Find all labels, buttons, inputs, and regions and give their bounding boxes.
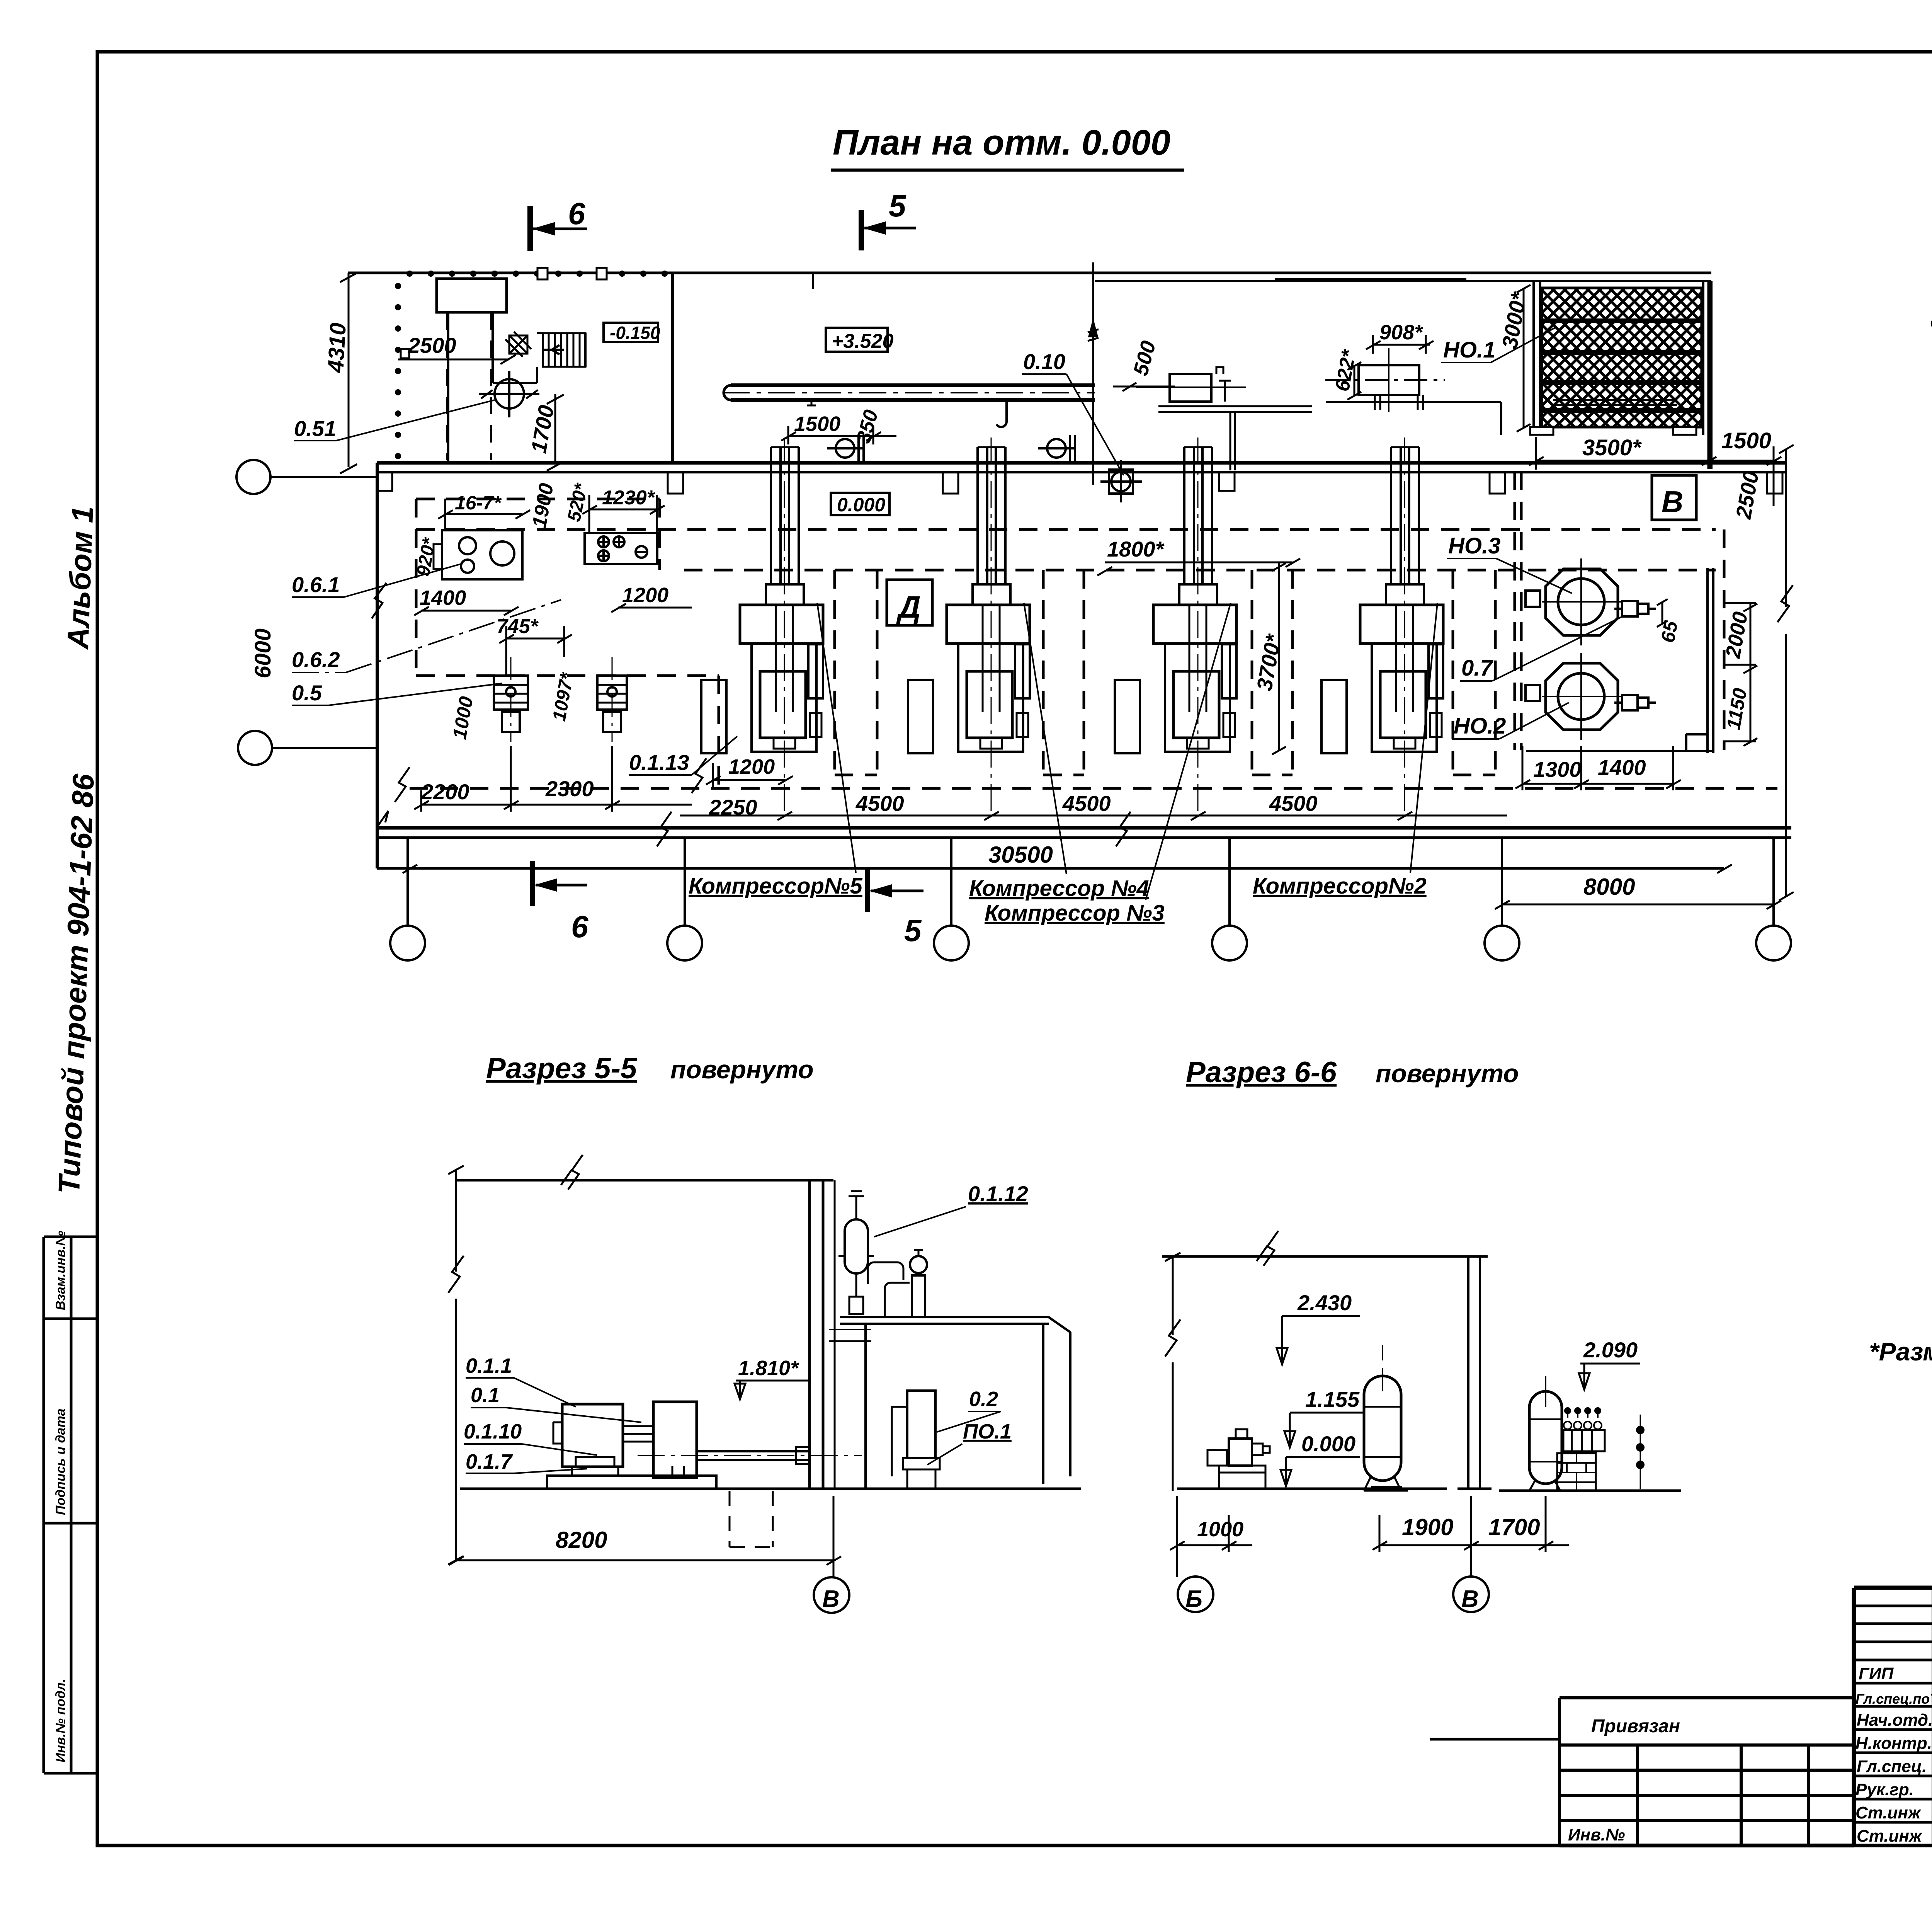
svg-text:План на отм. 0.000: План на отм. 0.000	[833, 123, 1170, 162]
section 6-6 dotted column	[1637, 1427, 1643, 1433]
wall: crosshatch unit frame verticals	[1534, 281, 1711, 469]
block with small pumps	[585, 533, 657, 564]
dashed pit outline upper	[410, 472, 1777, 788]
svg-text:1500: 1500	[1721, 428, 1771, 453]
svg-text:745*: 745*	[497, 615, 539, 638]
section 5-5 piston rod	[697, 1451, 810, 1460]
svg-text:+3.520: +3.520	[832, 330, 894, 352]
grid circle row A (left)	[236, 460, 377, 765]
svg-text:Инв.№ подл.: Инв.№ подл.	[53, 1679, 68, 1762]
svg-text:1230*: 1230*	[602, 487, 656, 509]
svg-text:1800*: 1800*	[1107, 537, 1165, 561]
section 6-6 valve battery	[1563, 1430, 1605, 1451]
right dim extension line with break	[1777, 445, 1794, 901]
section 5-5 vessel 0.1.12	[845, 1219, 868, 1273]
svg-text:Компрессор№2: Компрессор№2	[1253, 873, 1427, 899]
wall: partition at grid Д left	[671, 273, 674, 463]
small squares left of hexagons	[1526, 591, 1540, 607]
svg-text:*Размеры для справок.: *Размеры для справок.	[1869, 1337, 1932, 1366]
svg-text:4500: 4500	[1062, 791, 1111, 815]
svg-text:повернуто: повернуто	[670, 1055, 814, 1084]
section 6-6 wall	[1468, 1256, 1480, 1489]
section 5-5 grid circle В	[814, 1577, 849, 1613]
svg-text:0.10: 0.10	[1023, 349, 1065, 374]
section marker 5 top	[861, 210, 916, 250]
wall: bottom inner line	[377, 867, 1724, 870]
svg-text:2.090: 2.090	[1583, 1338, 1638, 1362]
wall annex	[493, 312, 585, 383]
svg-text:0.6.1: 0.6.1	[292, 572, 340, 597]
pumps 0.5 pair	[494, 657, 627, 742]
svg-text:30500: 30500	[988, 842, 1053, 868]
building annex top-left block	[437, 279, 507, 312]
svg-text:ПО.1: ПО.1	[963, 1420, 1012, 1443]
svg-text:Гл.спец.: Гл.спец.	[1857, 1757, 1927, 1776]
section 5-5 compressor 0.1	[653, 1402, 697, 1478]
fence dotted line top	[395, 271, 668, 459]
svg-text:908*: 908*	[1379, 321, 1423, 344]
svg-text:Б: Б	[1185, 1586, 1202, 1612]
section 5-5 base plate	[547, 1476, 716, 1489]
svg-text:Компрессор №4: Компрессор №4	[969, 876, 1149, 901]
svg-text:Альбом 1: Альбом 1	[61, 506, 100, 650]
svg-text:1300: 1300	[1533, 757, 1582, 781]
svg-text:Инв.№: Инв.№	[1568, 1825, 1625, 1844]
svg-text:0.1.1: 0.1.1	[466, 1354, 512, 1377]
svg-text:Ст.инж: Ст.инж	[1855, 1803, 1922, 1822]
valve units right of hexagons 0.7	[1614, 601, 1656, 710]
svg-text:1200: 1200	[622, 584, 668, 607]
compressor unit N5	[701, 438, 823, 815]
bench line below	[1326, 402, 1501, 435]
svg-text:1.810*: 1.810*	[738, 1357, 799, 1380]
svg-text:8200: 8200	[556, 1527, 607, 1553]
svg-text:повернуто: повернуто	[1376, 1059, 1519, 1088]
right room bottom line	[1526, 750, 1713, 752]
svg-text:Компрессор№5: Компрессор№5	[689, 873, 862, 899]
svg-text:0.2: 0.2	[969, 1388, 998, 1411]
svg-text:ГИП: ГИП	[1859, 1664, 1894, 1683]
svg-text:Разрез 5-5: Разрез 5-5	[486, 1052, 638, 1085]
section 5-5 pit dashed	[730, 1491, 773, 1547]
svg-text:4500: 4500	[855, 791, 904, 815]
section 5-5 pump 0.2	[907, 1391, 935, 1458]
section 5-5 ceiling line	[456, 1179, 833, 1182]
hexagon pump НО.3	[1542, 558, 1621, 645]
svg-text:1400: 1400	[1598, 755, 1646, 780]
svg-text:1900: 1900	[1402, 1514, 1453, 1540]
equipment circle 0.51	[479, 371, 539, 417]
svg-text:0.000: 0.000	[837, 494, 885, 516]
svg-text:Разрез 6-6: Разрез 6-6	[1186, 1056, 1337, 1089]
compressor unit N2	[1321, 438, 1443, 815]
svg-text:В: В	[1461, 1586, 1479, 1612]
wall valve symbols	[827, 435, 1142, 502]
signature table thin rows	[1854, 1606, 1932, 1660]
svg-text:НО.2: НО.2	[1454, 713, 1506, 739]
svg-text:Рук.гр.: Рук.гр.	[1855, 1780, 1914, 1799]
level label -0.150	[604, 323, 658, 342]
svg-text:Ст.инж: Ст.инж	[1857, 1827, 1923, 1845]
section 5-5 pipes right	[868, 1262, 903, 1284]
upper right room bench and equipment	[1136, 367, 1312, 470]
svg-text:2.430: 2.430	[1297, 1290, 1352, 1315]
small block 622x908	[1325, 348, 1445, 412]
level label 0.000	[831, 493, 889, 515]
privyazan table	[1560, 1698, 1854, 1845]
small squares on top wall	[401, 268, 607, 358]
wall: right room wall x4422	[1708, 281, 1710, 469]
svg-text:Компрессор №3: Компрессор №3	[985, 901, 1165, 926]
svg-text:Д: Д	[896, 590, 921, 624]
svg-text:2300: 2300	[545, 776, 594, 801]
svg-text:3500*: 3500*	[1582, 435, 1642, 460]
svg-text:Привязан: Привязан	[1591, 1716, 1680, 1737]
svg-text:0.000: 0.000	[1301, 1432, 1355, 1456]
section 6-6 grid circle В	[1453, 1577, 1489, 1612]
svg-text:Подпись и дата: Подпись и дата	[53, 1408, 68, 1515]
section 6-6 vessel 1	[1364, 1376, 1401, 1481]
section 5-5 left dim line	[455, 1170, 457, 1560]
stray line left of privyazan	[1430, 1738, 1560, 1741]
svg-text:В: В	[1662, 485, 1683, 519]
svg-text:НО.1: НО.1	[1443, 337, 1495, 363]
svg-text:2500: 2500	[408, 333, 456, 358]
wall: left wall of machine hall	[376, 463, 379, 868]
svg-text:0.51: 0.51	[294, 416, 336, 441]
dim line vertical at monorail end	[1088, 262, 1099, 485]
grid label Д box	[887, 580, 932, 625]
svg-text:6000: 6000	[250, 628, 276, 678]
section 5-5 small vessel on table	[912, 1275, 925, 1317]
svg-text:НО.3: НО.3	[1448, 533, 1500, 558]
hatch cross symbol	[505, 332, 531, 357]
svg-text:Н.контр.: Н.контр.	[1855, 1734, 1932, 1753]
stairs	[543, 333, 585, 367]
section marker 6 bottom	[532, 861, 587, 906]
compressor unit N4	[908, 438, 1030, 815]
svg-text:0.1.10: 0.1.10	[464, 1420, 522, 1443]
section 6-6 ceiling line	[1162, 1255, 1488, 1258]
svg-text:1400: 1400	[420, 586, 466, 609]
aftercooler HO.1 crosshatched	[1530, 288, 1702, 435]
svg-text:16-7*: 16-7*	[455, 492, 502, 514]
grid label В box	[1652, 475, 1696, 520]
section 5-5 motor 0.1.1	[562, 1404, 623, 1467]
left equipment cluster: tank 0.6.1	[434, 530, 522, 579]
section 5-5 wall columns	[810, 1180, 823, 1489]
svg-text:6: 6	[568, 196, 585, 231]
partition stub top	[812, 273, 814, 289]
svg-text:4310: 4310	[323, 322, 351, 373]
section 5-5 ground line	[460, 1488, 1081, 1490]
svg-text:0.5: 0.5	[292, 681, 322, 705]
svg-text:0.7: 0.7	[1461, 655, 1493, 681]
svg-text:1000: 1000	[1197, 1518, 1243, 1541]
svg-text:4500: 4500	[1269, 791, 1318, 815]
svg-text:1500: 1500	[794, 412, 840, 436]
section 6-6 left dim line	[1172, 1256, 1174, 1491]
level label +3.520	[826, 328, 888, 352]
svg-text:1.155: 1.155	[1305, 1387, 1360, 1411]
section marker 6 top	[530, 206, 587, 251]
bottom dim row 2250/4500/4500/4500	[680, 812, 1507, 820]
section 6-6 ground line	[1177, 1489, 1681, 1491]
svg-text:65: 65	[1657, 619, 1682, 644]
section 6-6 grid circle Б	[1178, 1577, 1213, 1612]
svg-text:0.1.13: 0.1.13	[629, 750, 689, 775]
section 6-6 vessel 2	[1529, 1391, 1562, 1484]
svg-text:Гл.спец.поТБ: Гл.спец.поТБ	[1855, 1691, 1932, 1707]
svg-text:0.6.2: 0.6.2	[292, 647, 340, 672]
title block outer	[1854, 1588, 1932, 1845]
left margin strip table	[44, 1237, 97, 1773]
dashed partition verticals	[447, 312, 491, 460]
svg-text:0.1.12: 0.1.12	[968, 1182, 1028, 1206]
svg-text:0.1.7: 0.1.7	[466, 1450, 513, 1473]
svg-text:5: 5	[889, 189, 906, 223]
wall: right cell double wall	[1686, 568, 1713, 753]
compressor unit N3	[1115, 438, 1236, 815]
column stubs below wall	[377, 472, 1782, 494]
wall: bottom wall double	[377, 826, 1791, 830]
break symbol left	[372, 583, 386, 618]
hexagon pump НО.2	[1542, 653, 1621, 740]
wall: plan top outer wall	[348, 272, 1711, 274]
break symbols bottom wall	[657, 812, 672, 846]
svg-text:6: 6	[571, 909, 588, 944]
section 6-6 pump unit left	[1207, 1450, 1227, 1466]
signature name rows	[1854, 1683, 1932, 1822]
svg-text:0.1: 0.1	[471, 1384, 500, 1407]
svg-text:-0.150: -0.150	[610, 323, 660, 343]
svg-text:8000: 8000	[1583, 874, 1635, 900]
wall: upper-right rooms inner line	[1095, 279, 1711, 281]
svg-text:1200: 1200	[728, 755, 775, 778]
svg-text:1700: 1700	[1488, 1514, 1540, 1540]
signature rows text	[1855, 1664, 1932, 1845]
wall: main middle wall (double)	[377, 461, 1787, 465]
svg-text:Нач.отд.: Нач.отд.	[1857, 1711, 1932, 1730]
monorail beam	[723, 385, 1095, 427]
dim 4310	[340, 273, 357, 473]
svg-text:В: В	[822, 1586, 840, 1612]
section marker 5 bottom	[867, 869, 923, 912]
svg-text:Взам.инв.№: Взам.инв.№	[53, 1231, 68, 1310]
grid circles bottom row	[390, 838, 1791, 960]
section 5-5 table	[840, 1317, 1070, 1489]
svg-text:5: 5	[904, 913, 922, 948]
section 5-5 slide base 0.1.7	[572, 1457, 618, 1476]
